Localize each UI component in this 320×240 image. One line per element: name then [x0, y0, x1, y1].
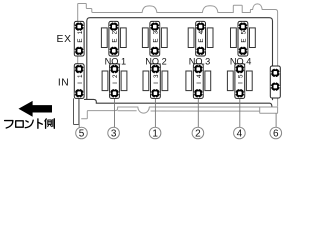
svg-text:I 1: I 1	[77, 73, 84, 83]
svg-text:E 3: E 3	[152, 30, 159, 43]
svg-text:NO.2: NO.2	[145, 56, 166, 66]
svg-text:IN: IN	[58, 78, 69, 89]
svg-text:I 2: I 2	[112, 73, 119, 83]
svg-text:E 4: E 4	[198, 30, 205, 43]
svg-text:3: 3	[111, 129, 117, 140]
svg-text:NO.4: NO.4	[230, 56, 251, 66]
svg-text:E 5: E 5	[241, 30, 248, 43]
svg-text:NO.3: NO.3	[189, 56, 210, 66]
svg-text:I 3: I 3	[153, 73, 160, 83]
svg-text:E 2: E 2	[111, 30, 118, 43]
svg-text:4: 4	[237, 129, 243, 140]
svg-text:1: 1	[152, 129, 158, 140]
svg-text:I 5: I 5	[237, 73, 244, 83]
svg-text:E 1: E 1	[77, 30, 84, 43]
svg-text:I 4: I 4	[196, 73, 203, 83]
svg-text:EX: EX	[57, 34, 72, 45]
svg-text:2: 2	[195, 129, 201, 140]
svg-text:6: 6	[273, 129, 279, 140]
svg-text:5: 5	[79, 129, 85, 140]
svg-text:NO.1: NO.1	[105, 56, 126, 66]
